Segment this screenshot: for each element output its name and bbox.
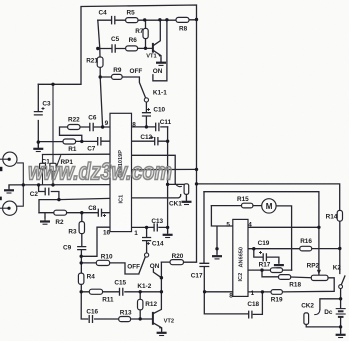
svg-text:IC1: IC1 xyxy=(119,195,125,204)
svg-text:C19: C19 xyxy=(258,240,270,247)
svg-text:R8: R8 xyxy=(179,26,188,33)
svg-text:R12: R12 xyxy=(145,301,157,308)
svg-text:R5: R5 xyxy=(127,9,136,16)
svg-text:CK2: CK2 xyxy=(301,302,314,309)
svg-text:ON: ON xyxy=(150,263,160,270)
svg-text:VT1: VT1 xyxy=(146,53,156,59)
svg-text:C4: C4 xyxy=(99,10,108,17)
svg-text:IC2: IC2 xyxy=(238,273,244,282)
svg-text:R4: R4 xyxy=(87,273,96,280)
svg-text:VT2: VT2 xyxy=(164,318,174,324)
svg-text:C10: C10 xyxy=(153,106,165,113)
svg-text:C15: C15 xyxy=(114,279,126,286)
svg-text:R2: R2 xyxy=(55,219,64,226)
svg-text:4: 4 xyxy=(248,221,252,228)
svg-text:16: 16 xyxy=(103,229,111,236)
svg-text:C7: C7 xyxy=(87,145,96,152)
svg-text:C14: C14 xyxy=(152,241,164,248)
svg-text:R13: R13 xyxy=(120,309,132,316)
svg-text:R11: R11 xyxy=(102,296,114,303)
svg-text:C18: C18 xyxy=(247,301,259,308)
svg-text:C12: C12 xyxy=(140,134,152,141)
svg-text:R21: R21 xyxy=(86,58,98,65)
svg-text:C2: C2 xyxy=(30,191,39,198)
svg-text:1: 1 xyxy=(251,290,255,297)
svg-text:K1-1: K1-1 xyxy=(153,89,167,96)
svg-text:www.dz3w.com: www.dz3w.com xyxy=(28,159,172,186)
svg-text:R17: R17 xyxy=(259,262,271,269)
svg-text:R22: R22 xyxy=(68,117,80,124)
svg-text:C3: C3 xyxy=(42,101,51,108)
svg-text:OFF: OFF xyxy=(130,68,143,75)
svg-text:1: 1 xyxy=(134,230,138,237)
svg-text:C13: C13 xyxy=(151,218,163,225)
svg-text:C5: C5 xyxy=(111,36,120,43)
svg-text:C8: C8 xyxy=(88,205,97,212)
svg-text:Dc: Dc xyxy=(324,309,333,316)
svg-text:RP2: RP2 xyxy=(307,263,320,270)
svg-text:C6: C6 xyxy=(88,115,97,122)
svg-text:R18: R18 xyxy=(289,282,301,289)
svg-text:M: M xyxy=(266,202,273,211)
svg-text:C11: C11 xyxy=(160,119,172,126)
svg-text:R1: R1 xyxy=(68,146,77,153)
svg-text:R10: R10 xyxy=(101,254,113,261)
svg-text:C16: C16 xyxy=(86,309,98,316)
svg-text:R14: R14 xyxy=(326,214,338,221)
svg-text:R20: R20 xyxy=(172,253,184,260)
svg-text:R3: R3 xyxy=(68,228,77,235)
svg-text:9: 9 xyxy=(105,120,109,127)
svg-text:8: 8 xyxy=(229,293,233,300)
svg-text:AN6650: AN6650 xyxy=(239,247,245,268)
svg-text:K1-2: K1-2 xyxy=(137,283,151,290)
svg-text:ON: ON xyxy=(153,68,163,75)
svg-text:R19: R19 xyxy=(271,297,283,304)
svg-text:CK1: CK1 xyxy=(169,201,182,208)
svg-text:R16: R16 xyxy=(300,238,312,245)
svg-text:C9: C9 xyxy=(63,244,72,251)
svg-text:R15: R15 xyxy=(237,196,249,203)
svg-text:5: 5 xyxy=(226,221,230,228)
svg-text:C17: C17 xyxy=(191,273,203,280)
svg-text:OFF: OFF xyxy=(127,263,140,270)
svg-text:R7: R7 xyxy=(135,28,144,35)
svg-text:R9: R9 xyxy=(113,67,122,74)
svg-text:K2: K2 xyxy=(333,264,342,271)
svg-text:R6: R6 xyxy=(129,37,138,44)
svg-text:8: 8 xyxy=(132,122,136,129)
